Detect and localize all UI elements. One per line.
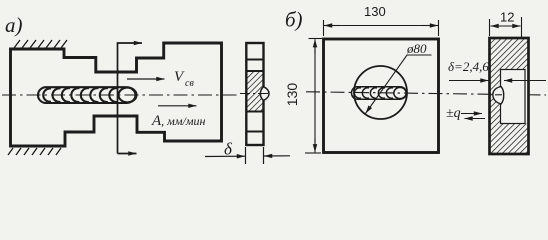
dimension line with inward arrows xyxy=(205,155,245,157)
hatching of side view xyxy=(490,38,529,154)
centerline part b (through plate and side view) xyxy=(306,92,546,95)
svg-text:130: 130 xyxy=(284,83,300,107)
fixed support hatching (top-left) xyxy=(14,40,67,48)
dividers (tab plates) xyxy=(246,60,263,132)
svg-text:а): а) xyxy=(5,13,23,37)
dimension 12 (top of side view) xyxy=(490,17,522,37)
svg-text:δ=2,4,6: δ=2,4,6 xyxy=(448,59,489,74)
oscillation arrows ±q xyxy=(461,113,482,115)
svg-text:ø80: ø80 xyxy=(406,41,427,56)
svg-text:св: св xyxy=(185,78,194,89)
weld bead bulge on section right edge xyxy=(260,87,269,101)
weld bead chain, part b xyxy=(351,87,406,99)
svg-text:130: 130 xyxy=(364,4,386,19)
centerline through section xyxy=(240,93,270,95)
weld bead (chain of scales) part a xyxy=(38,87,137,103)
arrow V_sv (welding speed) xyxy=(127,78,165,80)
svg-text:±q: ±q xyxy=(446,106,461,121)
electrode / wire feed line with direction arrows xyxy=(118,43,143,154)
top dimension 130 xyxy=(324,20,439,36)
diameter leader line ø80 xyxy=(366,55,432,114)
left dimension 130 xyxy=(305,39,322,154)
centerline dash inside bump xyxy=(495,94,502,96)
svg-text:V: V xyxy=(174,69,185,85)
svg-text:δ: δ xyxy=(224,140,233,159)
svg-text:б): б) xyxy=(285,8,303,32)
hatch of section xyxy=(246,71,263,112)
svg-text:А, мм/мин: А, мм/мин xyxy=(151,113,205,129)
weld bead bulge in side view xyxy=(493,87,504,105)
delta dimension under section xyxy=(205,147,290,164)
fixed support hatching (bottom-left) xyxy=(8,148,61,155)
arrow A (wire feed) xyxy=(158,105,197,107)
section view (edge view) column, part a xyxy=(240,43,270,145)
side plate outline xyxy=(490,38,529,154)
groove clearing (white) xyxy=(501,70,529,124)
section column outline xyxy=(246,43,263,145)
circle (weld zone) xyxy=(354,66,407,119)
inner groove (white window) xyxy=(501,70,526,124)
arrow from right pointing to groove xyxy=(504,80,546,82)
workpiece stepped outline (plan view, two plates butt-joint) xyxy=(11,43,222,146)
arrow from delta label to plate xyxy=(449,80,489,82)
square plate outline xyxy=(324,39,439,153)
extension lines xyxy=(245,147,247,164)
svg-text:12: 12 xyxy=(500,10,514,25)
centerline (axis) of weld, part a xyxy=(2,94,237,96)
